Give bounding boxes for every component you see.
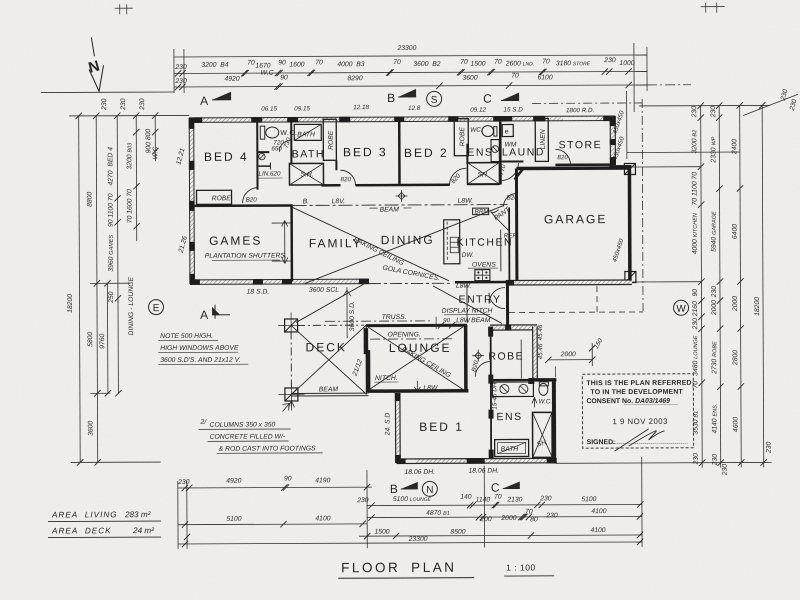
left vertical dim line bed4/games [117, 116, 118, 393]
window head labels above wall [261, 103, 594, 115]
cornice dash-dot under dining [369, 282, 453, 284]
wall piers [189, 116, 615, 123]
store/garage jut wall [609, 165, 631, 168]
left extension verticals [173, 49, 175, 93]
section marker B top [387, 89, 416, 105]
circled E [148, 300, 163, 315]
garage corner chamfer [514, 168, 523, 179]
overall dim line 23300 [174, 55, 647, 57]
arrow from columns note to deck column [282, 403, 289, 411]
pantry corner [491, 206, 513, 232]
deck X diagonal 2 [291, 325, 366, 394]
laundry bottom wall [500, 160, 523, 162]
robe shelf line [520, 339, 522, 378]
section marker A mid-left [200, 305, 230, 322]
nitch note lounge [374, 375, 398, 382]
entry left boundary line [466, 285, 468, 323]
bottom dim row C line left [178, 523, 367, 526]
row1 ticks [175, 68, 632, 76]
circled W [674, 300, 689, 315]
broom cupboard box [473, 208, 490, 215]
tie at garage bottom [633, 281, 701, 283]
tie at 2330 boundary [627, 151, 740, 153]
hall/robe wall (bed1 right wall) [488, 327, 494, 459]
bed1 top wall / lounge bottom wall [367, 389, 468, 393]
garage pier top right [624, 163, 635, 174]
right vertical dim line 3 [740, 106, 742, 468]
left vertical dim line wc [154, 116, 156, 161]
left vertical dim line 3200 b03 [135, 116, 138, 241]
family/dining X diagonal 1 [293, 207, 449, 282]
left exterior wall [189, 118, 195, 284]
left dim ticks [75, 112, 159, 465]
top exterior wall (double line with window hatch) [189, 116, 615, 123]
row1 dim line [174, 71, 647, 73]
deck column top [278, 312, 304, 338]
extension verticals [177, 481, 179, 549]
bottom overall 23300 line [178, 542, 642, 544]
hall cross symbol 1 [396, 190, 408, 202]
row2 labels [174, 72, 552, 85]
ens vanity [492, 382, 533, 397]
right edge rotated 230 artifacts [780, 88, 799, 112]
section marker C top [483, 91, 519, 105]
suite top hatched wall [490, 324, 537, 330]
family slider extension line [346, 287, 348, 338]
garage right wall [628, 165, 632, 283]
bed2/ens wall [466, 144, 468, 164]
section marker A top [200, 92, 231, 108]
kitchen island [444, 220, 474, 264]
left vertical dim line 8800/5800/3600 [96, 116, 98, 462]
kitchen/garage cavity wall [508, 208, 510, 281]
porch dashed outline [509, 311, 643, 314]
L8W arrow lounge [414, 381, 438, 392]
area table [48, 510, 161, 537]
robe right wall [533, 326, 538, 379]
lounge top right small dims [436, 317, 491, 329]
left vertical dim line 18200 [79, 116, 81, 462]
store right wall [610, 116, 616, 165]
kitchen bottom wall [455, 281, 508, 284]
horizontal line left of top dims [41, 91, 174, 94]
games top wall [192, 204, 293, 207]
bed3 left wall lower + door [335, 160, 337, 170]
bed4 robe box [197, 190, 233, 204]
row1 labels [174, 57, 635, 77]
ens/laund wall [499, 119, 502, 185]
deck column bottom [278, 381, 304, 410]
ens bath tub [495, 439, 529, 456]
bottom tie [556, 461, 772, 464]
right dim ticks [697, 102, 766, 466]
garage pier bottom right [625, 271, 636, 282]
plantation shutters note [205, 252, 287, 260]
bottom dim ticks [182, 483, 644, 547]
ens top fixtures [467, 126, 499, 185]
small dim marks above suite [491, 324, 544, 409]
section marker C bottom [491, 480, 520, 494]
truss dash-dot [325, 320, 433, 322]
2000 dim near stamp [545, 337, 605, 377]
top left edge artifact [115, 4, 133, 14]
bottom tie line [71, 461, 161, 463]
lounge right wall [464, 325, 468, 392]
ens pier ticks on divider [528, 378, 534, 384]
entry ceiling diagonal [433, 286, 502, 324]
bottom dim row B line [367, 504, 642, 505]
deck lounge divider sliding door [364, 325, 371, 394]
lounge X diagonal 2 [368, 327, 463, 390]
eave dash-dot top [532, 102, 642, 104]
wc room walls [257, 119, 297, 152]
vanity [491, 140, 499, 162]
entry right wall [506, 283, 509, 327]
ens shower bottom [532, 412, 552, 457]
beam dash-dot over family/dining [293, 204, 508, 207]
lounge top wall [366, 324, 467, 327]
lounge X diagonal 1 [368, 327, 463, 390]
ens top bottom wall [467, 183, 499, 185]
store bottom wall + door [555, 163, 613, 166]
bottom dim labels [177, 474, 607, 544]
ens jut wall [533, 378, 556, 382]
bed3 robe strip [323, 119, 336, 160]
ens shower [467, 163, 499, 185]
mid tie line at games bottom [90, 282, 130, 284]
entry double door arcs [489, 288, 505, 304]
ens wc toilet [532, 382, 552, 408]
right extension verticals [633, 43, 635, 112]
extension from top dims to store corner [626, 91, 628, 159]
laundry fixtures [502, 124, 517, 148]
bottom dim row E line [359, 535, 642, 536]
bed3/bed2 wall [398, 122, 401, 185]
section marker B bottom [390, 482, 418, 496]
bed2 robe strip [454, 119, 468, 156]
right vertical dim line 1 [701, 106, 703, 468]
left dim rotated labels [66, 98, 190, 436]
right dim rotated labels [691, 105, 773, 476]
deck long diagonal to family wall [296, 281, 369, 322]
note high windows [158, 333, 248, 365]
opening dash-dot [370, 338, 452, 340]
diagonal top-right [743, 94, 798, 115]
ens right wall [552, 378, 556, 462]
robe/ens divider wall [490, 379, 534, 381]
family/dining X diagonal 2 [305, 206, 504, 284]
row2 dim line [174, 85, 647, 87]
games/family bottom exterior wall [190, 279, 369, 296]
shower SH hatched [289, 163, 323, 185]
bottom dim row C line right [367, 516, 642, 517]
garage top wall [516, 166, 629, 170]
bed4 right wall [256, 120, 258, 190]
deck top dash-dot [297, 324, 364, 326]
right vertical dim line 4 [762, 105, 764, 467]
garage left wall [515, 168, 518, 282]
bottom dim row A line [178, 486, 372, 489]
linen strip tall [535, 118, 548, 161]
kitchen top door arc [504, 193, 517, 206]
bath room [283, 124, 324, 185]
tub [294, 124, 321, 140]
bed1 left window wall [384, 393, 400, 463]
games opening dim line [272, 220, 293, 263]
kitchen bench line [500, 230, 502, 272]
smoke/north S circle [427, 91, 442, 106]
tie at garage top [632, 166, 700, 168]
circled N [422, 481, 437, 496]
games/family wall [290, 205, 293, 281]
suite bottom wall [397, 458, 557, 476]
garage bottom wall [506, 279, 632, 285]
note columns [199, 418, 323, 453]
toilet [260, 126, 265, 139]
deck left dash-dot [290, 331, 292, 388]
floor plan title [338, 559, 554, 578]
top right edge artifact [701, 3, 725, 13]
mid tie line lounge [90, 392, 110, 394]
row2 ticks [175, 82, 632, 90]
linen closet [257, 153, 282, 178]
bed2 door arc [449, 168, 466, 185]
deck bottom beam [291, 393, 368, 396]
dash-dot eave line right of garage [641, 99, 644, 311]
hall cross symbol [472, 350, 484, 362]
deck X diagonal 1 [291, 325, 366, 394]
bedrooms bottom wall [321, 184, 449, 187]
bed4 door arc [243, 188, 259, 204]
display nitch note [442, 308, 493, 315]
right vertical dim line 2 [719, 106, 721, 468]
ovens [468, 262, 498, 281]
top tie line [69, 114, 189, 117]
top tie [639, 104, 770, 107]
north arrow [87, 37, 104, 91]
robe door arc [475, 362, 490, 377]
